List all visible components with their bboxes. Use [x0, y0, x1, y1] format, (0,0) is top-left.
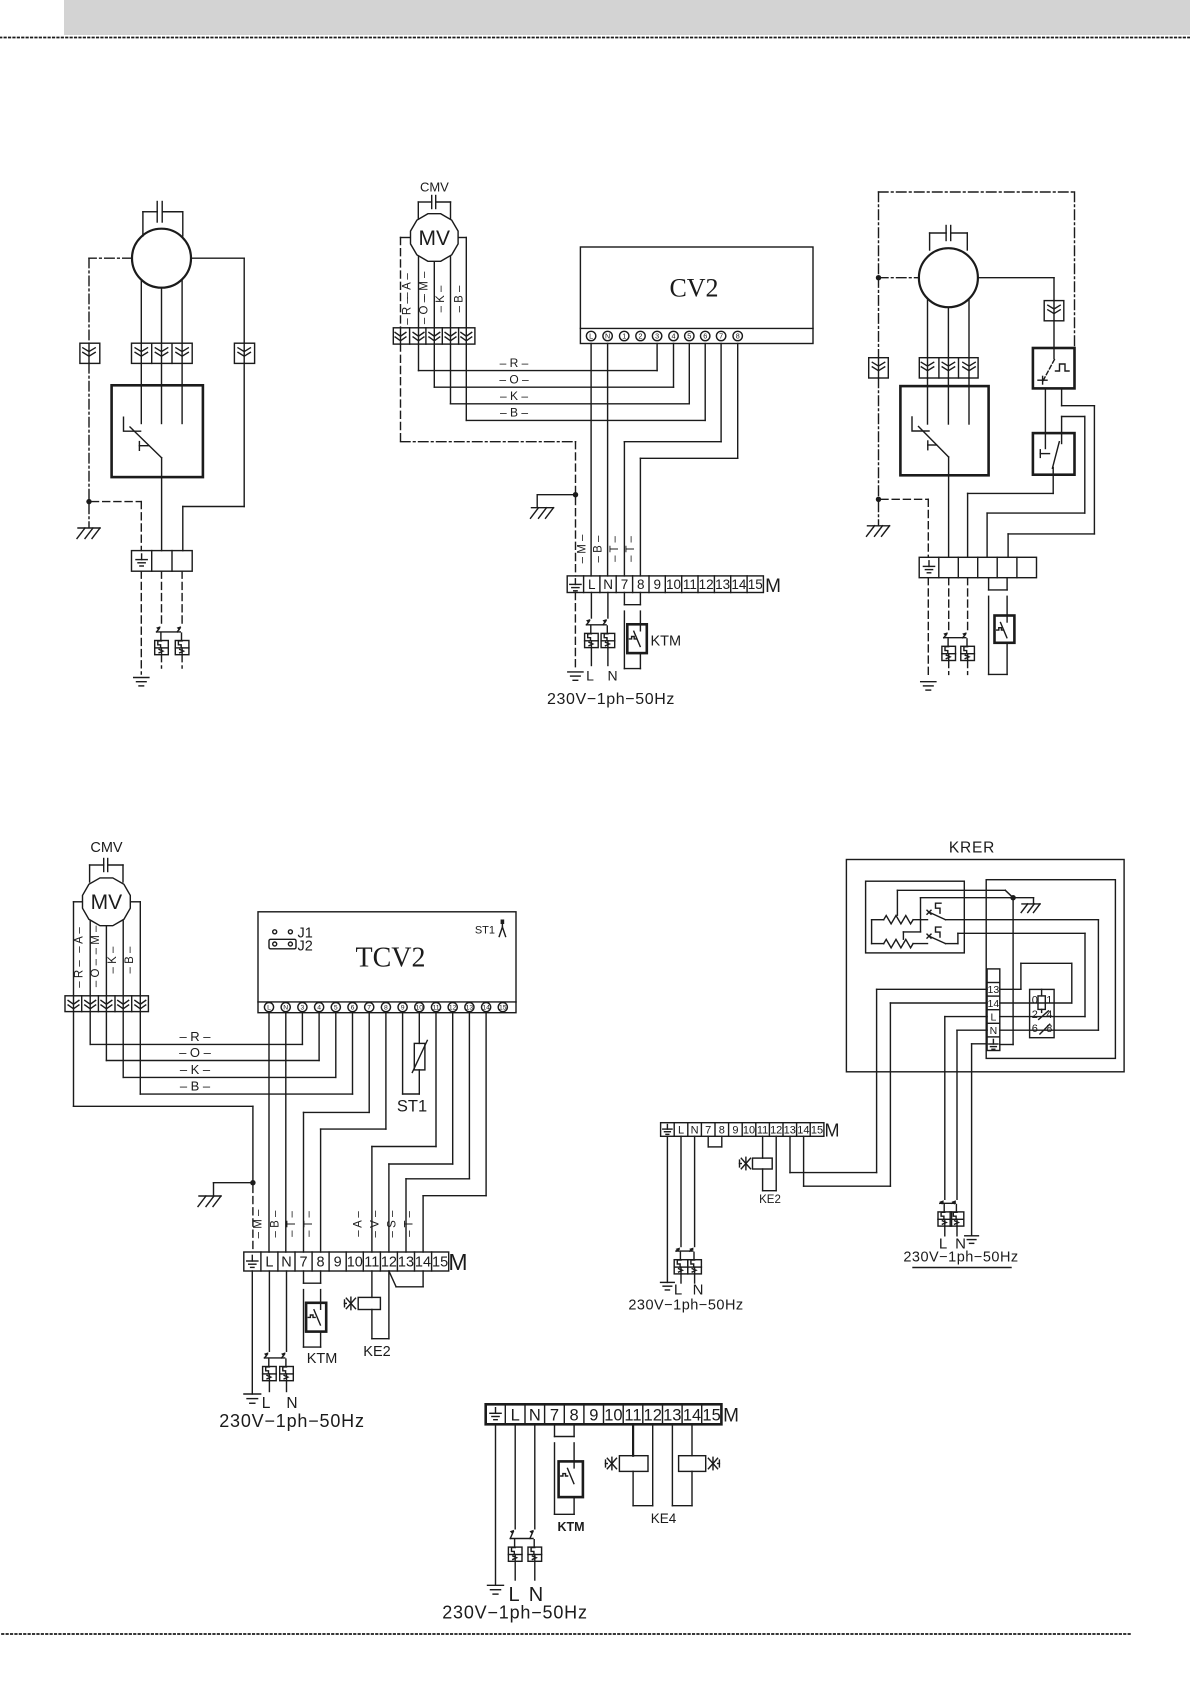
svg-text:KTM: KTM [307, 1351, 338, 1367]
wire 8 (B) [737, 344, 739, 459]
wire 13 left (E) [877, 988, 988, 990]
svg-text:L: L [586, 668, 594, 684]
svg-text:M: M [825, 1121, 840, 1141]
wire 12 (D) [452, 1012, 454, 1164]
wire L (D) [268, 1012, 270, 1252]
thermal cutout 2 (E) [927, 934, 931, 938]
svg-text:9: 9 [334, 1255, 342, 1271]
svg-text:11: 11 [432, 1005, 439, 1012]
svg-text:1: 1 [622, 332, 626, 341]
svg-text:7: 7 [367, 1005, 371, 1012]
svg-text:N: N [693, 1282, 704, 1299]
wires to switch (C) [927, 378, 929, 386]
svg-text:– B –: – B – [500, 406, 528, 420]
heater output 1 wire (E) [946, 919, 1099, 921]
TCV2 terminals (D) [264, 1003, 273, 1012]
svg-text:13: 13 [715, 577, 730, 592]
svg-text:N: N [990, 1025, 998, 1037]
svg-text:TCV2: TCV2 [356, 943, 426, 974]
plug connectors (B) [587, 621, 590, 625]
svg-text:13: 13 [988, 984, 1000, 996]
svg-text:– T –: – T – [404, 1211, 416, 1237]
wire earth dash-dot (C) [878, 278, 880, 358]
wire O (B) [433, 344, 435, 387]
terminal strip (C) [919, 557, 1036, 577]
svg-text:12: 12 [699, 577, 714, 592]
svg-text:– T –: – T – [609, 536, 621, 562]
ground symbol (F) [661, 1281, 675, 1283]
connector triple (A) [132, 343, 193, 363]
junction node (D) [250, 1180, 255, 1185]
svg-text:8: 8 [570, 1406, 579, 1424]
svg-text:N: N [283, 1005, 288, 1012]
connector earth (A) [80, 343, 100, 363]
svg-text:4: 4 [1046, 1009, 1052, 1021]
speed switch box (C) [900, 386, 988, 475]
valve relay KE4 left (G) [632, 1424, 634, 1455]
link 12-14 (D) [389, 1271, 396, 1287]
fan motor MV (B) [411, 214, 459, 262]
svg-text:N: N [605, 332, 610, 341]
svg-text:– O –: – O – [179, 1045, 212, 1060]
wire earth to strip (D) [252, 1185, 254, 1252]
terminal strip (A) [132, 551, 193, 572]
svg-text:M: M [723, 1406, 739, 1427]
svg-text:8: 8 [637, 577, 645, 592]
earth wire below strip (A) [140, 571, 142, 674]
connector right (A) [234, 343, 254, 363]
heater output 2 wire (E) [946, 943, 958, 945]
plug connectors L N (A) [157, 628, 160, 632]
junction node (A) [86, 499, 91, 504]
bottom dotted rule [2, 1633, 1130, 1635]
wire N (B) [607, 344, 609, 576]
svg-text:11: 11 [757, 1124, 768, 1136]
svg-text:KTM: KTM [557, 1520, 584, 1534]
svg-text:13: 13 [784, 1124, 796, 1136]
svg-text:CV2: CV2 [669, 274, 718, 303]
wire MV-2 (B) [418, 257, 420, 328]
svg-text:10: 10 [604, 1406, 622, 1424]
KRER enclosure (E) [846, 860, 1124, 1072]
svg-text:1: 1 [1046, 994, 1052, 1006]
svg-text:KE2: KE2 [363, 1344, 390, 1360]
svg-text:10: 10 [347, 1255, 363, 1271]
ground branch (D) [214, 1182, 251, 1184]
svg-text:– B –: – B – [124, 946, 136, 973]
connector block (E) [1030, 989, 1055, 1037]
svg-text:M: M [765, 576, 781, 597]
ground symbol (C) [921, 681, 936, 683]
svg-text:7: 7 [621, 577, 629, 592]
svg-text:230V−1ph−50Hz: 230V−1ph−50Hz [903, 1250, 1018, 1266]
svg-text:– R –: – R – [500, 356, 529, 370]
svg-text:12: 12 [449, 1005, 457, 1012]
ground branch (B) [537, 494, 573, 496]
svg-text:– T –: – T – [303, 1211, 315, 1237]
wire R (B) [418, 344, 420, 371]
wire right down-around (A) [243, 363, 245, 506]
earth wire below strip (C) [927, 578, 929, 678]
chassis ground (A) [88, 504, 90, 528]
junction node (C) [876, 497, 881, 502]
terminal strip (D) [244, 1252, 449, 1271]
wire MV-1 (D) [74, 901, 82, 903]
plug connectors L N (E) [940, 1202, 943, 1203]
line wires L N (F) [680, 1136, 682, 1246]
svg-text:7: 7 [299, 1255, 307, 1271]
line wires L N (G) [514, 1424, 516, 1529]
svg-text:CMV: CMV [90, 840, 123, 856]
resistor common lead (E) [871, 920, 873, 944]
ground symbol (B) [568, 671, 583, 673]
fan motor MV (D) [83, 878, 131, 926]
svg-text:L: L [265, 1255, 273, 1271]
ground symbol bottom (A) [134, 677, 149, 679]
svg-text:– O –: – O – [418, 295, 430, 324]
motor (C) [919, 248, 978, 307]
svg-text:KRER: KRER [949, 840, 995, 857]
plug connectors (F) [676, 1249, 679, 1251]
svg-text:– S –: – S – [387, 1210, 399, 1237]
controller TCV2 (D) [258, 912, 516, 1013]
capacitor CMV (B) [431, 196, 433, 209]
svg-text:J2: J2 [298, 939, 313, 955]
dash-dot frame (C) [879, 191, 1075, 193]
wire 14 (D) [485, 1012, 487, 1196]
svg-text:MV: MV [419, 227, 451, 250]
svg-text:8: 8 [719, 1124, 725, 1136]
tap wire 1 (E) [896, 890, 898, 915]
wire N left (E) [957, 1029, 987, 1031]
wire dashed to strip (C) [881, 498, 928, 500]
svg-text:3: 3 [301, 1005, 305, 1012]
wire earth down to junction (A) [88, 363, 90, 498]
svg-text:– M –: – M – [253, 1209, 265, 1238]
svg-text:M: M [448, 1249, 467, 1275]
wire N (D) [285, 1012, 287, 1252]
wire MV-4 (B) [450, 257, 452, 328]
svg-text:9: 9 [732, 1124, 738, 1136]
svg-text:5: 5 [687, 332, 691, 341]
top dotted rule [0, 37, 1190, 39]
wire R (D) [89, 1012, 91, 1045]
svg-text:– B –: – B – [593, 535, 605, 562]
svg-text:N: N [286, 1395, 297, 1412]
svg-text:KTM: KTM [651, 634, 682, 650]
switch contacts (C) [927, 386, 929, 424]
svg-text:14: 14 [797, 1124, 809, 1136]
relay KE2 (D) [371, 1271, 373, 1297]
connector strip 5 (D) [65, 996, 148, 1012]
svg-text:– B –: – B – [269, 1210, 281, 1237]
capacitor (diagram A) [156, 202, 158, 223]
svg-text:13: 13 [398, 1255, 414, 1271]
svg-text:– A –: – A – [402, 273, 414, 299]
timer box 1 (C) [1033, 348, 1075, 388]
svg-text:7: 7 [705, 1124, 711, 1136]
wires to switch (A) [140, 363, 142, 385]
resistor R2 (E) [872, 943, 884, 945]
thermostat contact (C) [988, 578, 990, 590]
wire dashed junction to strip (A) [92, 501, 142, 503]
svg-text:– R –: – R – [179, 1029, 211, 1044]
wire 7 (D) [368, 1012, 370, 1113]
svg-text:12: 12 [770, 1124, 782, 1136]
svg-text:14: 14 [988, 998, 1000, 1010]
wire L (B) [590, 344, 592, 576]
thermostat KTM (D) [303, 1271, 305, 1283]
connector earth (C) [869, 358, 889, 378]
svg-text:13: 13 [663, 1406, 681, 1424]
wire K (D) [122, 1012, 124, 1078]
wire 11 (D) [435, 1012, 437, 1147]
wire B (D) [139, 1012, 141, 1095]
wire earth path (B) [400, 344, 402, 442]
svg-text:– B –: – B – [453, 285, 465, 312]
svg-text:L: L [267, 1005, 271, 1012]
ground symbol (D) [244, 1393, 261, 1395]
wire MV-2 (D) [89, 921, 91, 996]
controller CV2 (B) [580, 247, 813, 344]
svg-text:6: 6 [1032, 1023, 1038, 1035]
svg-text:14: 14 [683, 1406, 701, 1424]
svg-text:– M –: – M – [90, 925, 102, 954]
thermostat KTM (G) [554, 1424, 556, 1436]
terminal strip (F) [661, 1123, 824, 1137]
svg-text:14: 14 [482, 1005, 490, 1012]
svg-text:8: 8 [736, 332, 740, 341]
svg-text:ST1: ST1 [397, 1098, 427, 1116]
timer box1 outputs (C) [1044, 388, 1046, 433]
svg-text:8: 8 [384, 1005, 388, 1012]
svg-text:– O –: – O – [499, 372, 529, 386]
svg-text:– T –: – T – [625, 536, 637, 562]
wire MV-3 (D) [105, 927, 107, 996]
svg-text:– M –: – M – [576, 534, 588, 563]
svg-text:3: 3 [655, 332, 659, 341]
wire earth to strip (B) [575, 498, 577, 576]
svg-text:10: 10 [743, 1124, 755, 1136]
svg-text:0: 0 [1032, 994, 1038, 1006]
svg-text:6: 6 [703, 332, 707, 341]
terminal strip (B) [567, 576, 763, 593]
junction node left (C) [876, 275, 881, 280]
wire B (B) [465, 344, 467, 420]
svg-text:14: 14 [731, 577, 747, 592]
relay KE2 (F) [762, 1136, 764, 1158]
wire MV-1 dashed (B) [401, 237, 410, 239]
svg-text:15: 15 [432, 1255, 448, 1271]
ground symbol (G) [488, 1584, 504, 1586]
svg-text:L: L [678, 1124, 684, 1136]
jumper J2 (D) [269, 939, 296, 949]
svg-text:11: 11 [624, 1406, 641, 1424]
thermal cutout 1 (E) [927, 910, 931, 914]
svg-text:6: 6 [351, 1005, 355, 1012]
earth wire below strip (D) [251, 1271, 253, 1394]
wire motor right (C) [978, 277, 1054, 279]
wire MV-5 (D) [131, 901, 140, 903]
svg-text:11: 11 [683, 577, 697, 592]
wire MV-3 (B) [433, 262, 435, 328]
svg-text:13: 13 [466, 1005, 474, 1012]
earth wire (G) [495, 1424, 497, 1585]
terminal strip vertical (E) [987, 969, 1000, 1051]
svg-text:15: 15 [811, 1124, 823, 1136]
svg-text:7: 7 [719, 332, 723, 341]
wire MV-4 (D) [122, 921, 124, 996]
motor wires (C) [927, 300, 929, 357]
svg-text:10: 10 [416, 1005, 424, 1012]
svg-text:5: 5 [334, 1005, 338, 1012]
svg-text:7: 7 [550, 1406, 559, 1424]
svg-text:4: 4 [672, 332, 676, 341]
svg-text:N: N [529, 1406, 541, 1424]
svg-text:12: 12 [381, 1255, 397, 1271]
connector triple (C) [919, 358, 978, 378]
svg-text:MV: MV [91, 891, 123, 914]
svg-text:– A –: – A – [353, 1211, 365, 1237]
svg-text:– K –: – K – [435, 285, 447, 312]
tap wire 2 (E) [902, 932, 904, 939]
svg-text:230V−1ph−50Hz: 230V−1ph−50Hz [628, 1298, 743, 1314]
wire motor right (A) [191, 257, 244, 259]
svg-text:230V−1ph−50Hz: 230V−1ph−50Hz [442, 1603, 588, 1623]
connector right (C) [1044, 301, 1064, 321]
svg-text:14: 14 [415, 1255, 431, 1271]
svg-text:230V−1ph−50Hz: 230V−1ph−50Hz [547, 691, 675, 708]
svg-text:N: N [281, 1255, 291, 1271]
svg-text:4: 4 [317, 1005, 321, 1012]
svg-text:9: 9 [589, 1406, 598, 1424]
svg-text:KE2: KE2 [759, 1194, 781, 1206]
sensor ST1 (D) [402, 1012, 404, 1094]
line wires L N (B) [590, 593, 592, 619]
svg-text:L: L [990, 1012, 996, 1024]
svg-text:L: L [674, 1282, 682, 1299]
junction node (E) [1010, 895, 1015, 900]
switch contacts (A) [140, 385, 142, 423]
capacitor (C) [945, 226, 947, 241]
svg-text:N: N [691, 1124, 699, 1136]
svg-text:ST1: ST1 [475, 925, 495, 937]
line wires below strip (C) [948, 578, 950, 632]
svg-text:15: 15 [748, 577, 763, 592]
svg-text:L: L [511, 1406, 520, 1424]
svg-text:9: 9 [401, 1005, 405, 1012]
svg-text:– R –: – R – [402, 297, 414, 325]
svg-text:– B –: – B – [180, 1079, 211, 1094]
jumper J1 (D) [273, 930, 277, 934]
svg-text:N: N [603, 577, 613, 592]
speed switch box (A) [112, 385, 203, 477]
wire MV-5 (B) [459, 237, 466, 239]
chassis ground (C) [878, 502, 880, 526]
svg-text:230V−1ph−50Hz: 230V−1ph−50Hz [219, 1411, 365, 1431]
wire L left (E) [945, 1016, 987, 1018]
switch output (C) [948, 457, 950, 557]
wire earth path (D) [73, 1012, 75, 1107]
svg-text:12: 12 [644, 1406, 662, 1424]
line wires L N (D) [268, 1271, 270, 1351]
svg-text:L: L [262, 1395, 271, 1412]
svg-text:KE4: KE4 [651, 1511, 677, 1526]
wire 8 (D) [385, 1012, 387, 1129]
svg-text:L: L [589, 332, 593, 341]
wire earth dash-dot left (A) [89, 257, 132, 259]
plug connectors (D) [265, 1354, 268, 1358]
junction node (B) [573, 492, 578, 497]
valve relay KE4 right (G) [691, 1424, 693, 1455]
svg-text:15: 15 [702, 1406, 720, 1424]
chassis ground (E) [1013, 897, 1033, 899]
svg-text:– O –: – O – [90, 958, 102, 987]
svg-text:– K –: – K – [107, 946, 119, 973]
svg-text:– K –: – K – [500, 389, 528, 403]
svg-text:2: 2 [1032, 1009, 1038, 1021]
svg-text:– R –: – R – [74, 960, 86, 988]
svg-text:– V –: – V – [370, 1210, 382, 1237]
svg-text:L: L [588, 577, 596, 592]
header gray bar [64, 0, 1190, 35]
switch output wire (A) [161, 458, 163, 551]
svg-text:11: 11 [364, 1255, 379, 1271]
line wires below strip (A) [161, 571, 163, 625]
motor wires (A) [140, 281, 142, 344]
earth wire below strip (B) [574, 593, 576, 669]
terminal strip (G) [486, 1404, 722, 1424]
earth wire (F) [666, 1136, 668, 1282]
capacitor CMV (D) [103, 859, 105, 872]
wire O (D) [105, 1012, 107, 1061]
motor (diagram A) [132, 229, 191, 288]
thermostat KTM (B) [623, 593, 625, 605]
ground symbol (E) [965, 1235, 979, 1237]
timer box2 output (C) [1052, 468, 1054, 494]
relay board box (E) [986, 880, 1115, 1059]
svg-text:2: 2 [639, 332, 643, 341]
svg-text:9: 9 [653, 577, 661, 592]
svg-text:N: N [608, 668, 618, 684]
jumper 7-8 (F) [707, 1136, 709, 1147]
earth wire to strip (E) [1012, 898, 1014, 1045]
svg-text:CMV: CMV [420, 180, 449, 195]
CV2 terminals (B) [586, 331, 595, 340]
heater board box (E) [866, 881, 965, 953]
wire 13 (D) [468, 1012, 470, 1179]
wire 14 right (E) [1000, 1002, 1072, 1004]
timer box 2 (C) [1033, 433, 1075, 475]
svg-text:– K –: – K – [180, 1062, 211, 1077]
plug connectors (G) [510, 1531, 513, 1538]
connector strip 5 (B) [393, 328, 475, 344]
svg-text:– A –: – A – [74, 927, 86, 953]
svg-text:8: 8 [317, 1255, 325, 1271]
svg-text:15: 15 [499, 1005, 507, 1012]
wire 7 (B) [720, 344, 722, 442]
plug connectors (C) [944, 634, 947, 638]
resistor R1 (E) [872, 919, 884, 921]
wire earth left (E) [972, 1043, 988, 1045]
wire 14 left (E) [890, 1002, 987, 1004]
svg-text:10: 10 [666, 577, 681, 592]
wire K (B) [450, 344, 452, 404]
svg-text:– T –: – T – [286, 1211, 298, 1237]
wire 13 right loop (E) [1000, 988, 1021, 990]
